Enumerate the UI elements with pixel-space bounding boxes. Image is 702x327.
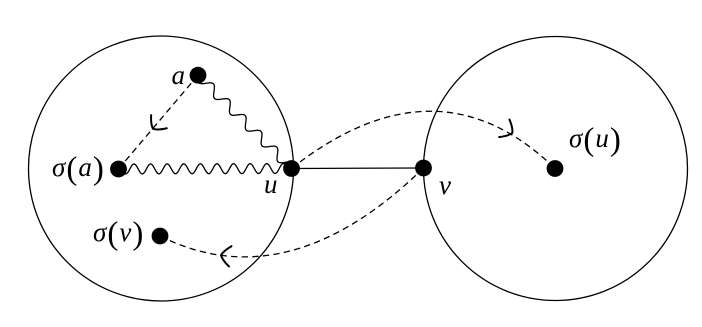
left circle xyxy=(29,36,294,301)
node sigma(v) xyxy=(152,228,169,245)
right circle xyxy=(424,37,688,301)
svg-text:a: a xyxy=(172,60,187,90)
node u xyxy=(283,160,300,177)
node v xyxy=(415,160,432,177)
svg-text:σ(v): σ(v) xyxy=(93,216,144,252)
svg-text:σ(a): σ(a) xyxy=(52,151,105,187)
svg-text:v: v xyxy=(439,170,452,200)
dashed curved edge v to sigma(v) xyxy=(160,168,424,257)
solid edge u-v xyxy=(292,167,424,170)
arrowhead on edge v to sigma(v) xyxy=(221,246,231,266)
arrowhead on edge u to sigma(u) xyxy=(499,119,512,137)
node sigma(u) xyxy=(547,160,564,177)
arrowhead on edge a to sigma(a) xyxy=(151,115,167,129)
svg-text:σ(u): σ(u) xyxy=(569,122,622,158)
node sigma(a) xyxy=(110,161,127,178)
node a xyxy=(190,67,207,84)
dashed edge a to sigma(a) xyxy=(119,75,199,169)
wavy edge a-u xyxy=(198,75,294,166)
svg-text:u: u xyxy=(264,169,279,199)
wavy edge sigma(a)-u xyxy=(118,164,291,174)
dashed curved edge u to sigma(u) xyxy=(292,111,556,168)
